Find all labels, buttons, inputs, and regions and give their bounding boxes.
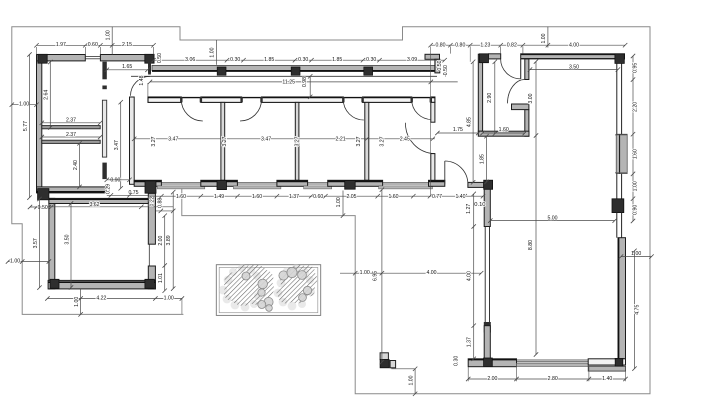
door arc room4	[412, 100, 432, 120]
extension line 1.00 top-left	[111, 27, 113, 55]
left wall solid upper	[484, 189, 490, 226]
dim 0.50 lower-left offset	[30, 206, 49, 208]
dim 2.90 vestibule	[494, 62, 496, 134]
dim 1.75 hall	[437, 132, 478, 134]
svg-text:5.77: 5.77	[23, 121, 29, 131]
svg-text:5.00: 5.00	[547, 216, 557, 222]
portico thin wall band	[152, 65, 440, 70]
svg-text:3.27: 3.27	[379, 136, 385, 146]
top wall right segment of top-left block	[100, 55, 153, 61]
svg-text:0.60: 0.60	[88, 42, 98, 48]
svg-text:1.40: 1.40	[455, 194, 465, 200]
left wall small dark block	[484, 322, 491, 333]
svg-text:1.37: 1.37	[289, 194, 299, 200]
svg-text:2.90: 2.90	[487, 93, 493, 103]
extension 1.00 top-right	[547, 27, 549, 48]
svg-text:0.77: 0.77	[432, 194, 442, 200]
bottom window 2.80	[517, 359, 589, 361]
door jamb caps on top wall	[180, 97, 182, 102]
door leaf and arc at wing top-left corridor	[131, 76, 150, 95]
courtyard bottom 1.00 dim	[391, 368, 415, 370]
right wall solid lower	[618, 238, 626, 359]
top wall piece right of portico	[425, 54, 440, 59]
svg-text:2.00: 2.00	[487, 376, 497, 382]
svg-text:4.22: 4.22	[96, 295, 106, 301]
svg-text:0.95: 0.95	[633, 63, 639, 73]
wing right end wall upper	[431, 102, 435, 122]
svg-text:4.00: 4.00	[569, 42, 579, 48]
svg-text:0.60: 0.60	[313, 194, 323, 200]
svg-text:3.62: 3.62	[89, 202, 99, 208]
wing bottom pier 1	[134, 180, 161, 186]
vestibule top-left column	[479, 54, 488, 63]
wing top wall segment 4	[363, 97, 412, 102]
window 1.60 second	[237, 181, 277, 183]
courtyard corner column light right	[390, 361, 396, 368]
svg-text:1.37: 1.37	[467, 337, 473, 347]
svg-text:2.45: 2.45	[400, 137, 410, 143]
bottom wall left segment	[468, 359, 516, 367]
svg-text:3.00: 3.00	[528, 93, 534, 103]
tree hatch blob right	[277, 265, 318, 304]
big room left column (junction)	[484, 180, 493, 189]
svg-text:0.88: 0.88	[158, 198, 164, 208]
wing right end wall lower	[431, 154, 435, 183]
svg-text:1.60: 1.60	[499, 127, 509, 133]
dim 3.47 corridor vertical	[120, 102, 122, 188]
portico lower face line	[131, 75, 437, 77]
window 1.60	[161, 181, 200, 183]
svg-text:4.00: 4.00	[467, 271, 473, 281]
dim row top-left 1.97 0.60 2.15	[37, 44, 154, 46]
interior wall A (2.37 room divider)	[42, 126, 100, 129]
corridor wall segment 2	[102, 86, 106, 90]
column at bottom wall left	[484, 358, 493, 367]
svg-text:1.00: 1.00	[633, 181, 639, 191]
bottom wall right segment hollow	[588, 359, 625, 365]
right side dim 4.75	[634, 251, 636, 369]
svg-text:3.50: 3.50	[569, 65, 579, 71]
svg-text:1.00: 1.00	[336, 197, 342, 207]
door arc room3	[343, 100, 364, 121]
dim row portico 3.06 0.30 1.85 0.30 1.85 0.30 3.09	[154, 59, 445, 61]
right wall thin middle	[616, 174, 618, 199]
svg-text:3.27: 3.27	[151, 136, 157, 146]
svg-text:0.22: 0.22	[149, 196, 155, 206]
dim 3.00 / 8.80 vertical in big room	[535, 62, 537, 355]
vestibule inner door arc	[508, 80, 525, 104]
column bottom-right of lower block	[145, 279, 155, 288]
big room top wall	[521, 54, 625, 59]
svg-text:2.37: 2.37	[66, 132, 76, 138]
svg-text:0.30: 0.30	[366, 57, 376, 63]
dim 3.62 lower block	[48, 206, 173, 208]
left wall solid lower	[484, 326, 490, 359]
window 0.60 in top wall	[85, 56, 100, 58]
wing bottom pier 5	[429, 180, 445, 186]
svg-text:2.37: 2.37	[66, 118, 76, 124]
svg-text:3.57: 3.57	[33, 238, 39, 248]
landscape box outer border	[216, 265, 320, 316]
svg-text:0.90: 0.90	[633, 205, 639, 215]
svg-text:1.00: 1.00	[164, 295, 174, 301]
svg-text:3.09: 3.09	[407, 57, 417, 63]
vestibule left wall	[478, 54, 482, 131]
dim 1.00 courtyard top	[342, 191, 344, 216]
bottom-right corner column redraw on top	[615, 358, 623, 366]
interior wall 2 of wing	[295, 102, 299, 180]
svg-text:0.10: 0.10	[474, 202, 485, 208]
svg-text:6.95: 6.95	[373, 271, 379, 281]
svg-text:0.29: 0.29	[106, 184, 112, 194]
svg-text:2.05: 2.05	[346, 194, 356, 200]
svg-text:3.47: 3.47	[168, 137, 178, 143]
tree circles right cluster	[279, 271, 288, 280]
column top-right of block	[145, 54, 154, 63]
wing top wall segment 3	[262, 97, 344, 102]
dim 3.50 inside big room	[530, 69, 618, 71]
svg-text:-0.50: -0.50	[443, 65, 449, 77]
svg-text:1.27: 1.27	[466, 204, 472, 214]
svg-text:1.40: 1.40	[602, 376, 612, 382]
bottom wall inner dark line	[48, 281, 155, 283]
entry door leaf	[520, 59, 522, 79]
courtyard dim 6.95 vertical	[381, 190, 383, 362]
corridor wall segment 3 (hollow)	[102, 100, 106, 157]
svg-text:1.60: 1.60	[388, 194, 398, 200]
bottom-right corner column	[615, 358, 623, 366]
dims 2.00 and 1.01	[164, 216, 166, 291]
svg-text:0.90: 0.90	[110, 178, 120, 184]
svg-text:1.00: 1.00	[10, 258, 20, 264]
svg-text:4.85: 4.85	[466, 117, 472, 127]
right side dim column 0.95 2.20 1.60 1.00 0.90	[632, 56, 634, 221]
svg-text:3.27: 3.27	[294, 136, 300, 146]
courtyard corner column light upper	[380, 353, 388, 360]
lower-left block left wall	[49, 198, 55, 289]
right wall middle column	[612, 199, 624, 213]
portico pier 1 (0.30)	[217, 67, 226, 75]
top wall piece to door	[489, 54, 501, 59]
landscape box inner border	[219, 267, 318, 312]
svg-text:1.00: 1.00	[408, 375, 414, 385]
tree circles trio bottom middle	[264, 297, 273, 306]
svg-text:1.97: 1.97	[56, 42, 66, 48]
column wing bottom-left junction	[145, 181, 156, 193]
dim 2.37 lower	[42, 136, 100, 138]
rotated 4.00 1.27 1.37 dims right of courtyard	[473, 194, 475, 359]
lower-left block right wall upper segment	[148, 193, 155, 244]
svg-text:4.75: 4.75	[634, 305, 640, 315]
svg-text:3.27: 3.27	[356, 136, 362, 146]
dim row 4.22 1.00	[47, 298, 182, 300]
svg-text:3.50: 3.50	[64, 234, 70, 244]
dim 1.60 vestibule	[483, 132, 525, 134]
dim 11.25 under portico	[150, 81, 458, 83]
left dim 5.77	[29, 55, 31, 198]
left wall window (4.00 opening)	[484, 227, 486, 326]
hall bottom wall piece	[468, 182, 484, 187]
dim 2.64 inside room	[49, 62, 51, 128]
svg-text:1.85: 1.85	[480, 154, 486, 164]
portico pier 3 (0.30)	[364, 67, 373, 75]
dim 2.37 upper	[42, 122, 100, 124]
svg-text:2.80: 2.80	[548, 376, 558, 382]
wing top wall segment 5	[431, 97, 435, 102]
svg-text:1.00: 1.00	[360, 270, 370, 276]
svg-text:1.00: 1.00	[74, 297, 80, 307]
svg-text:1.75: 1.75	[453, 127, 463, 133]
svg-text:0.50: 0.50	[157, 53, 163, 63]
right wall thin below column	[616, 213, 618, 238]
right side dim 1.00 horizontal	[621, 256, 652, 258]
wing top wall outer dark line	[148, 97, 435, 99]
svg-text:1.23: 1.23	[480, 42, 490, 48]
vestibule bottom wall	[478, 131, 529, 136]
extension lines top-left block	[36, 47, 38, 55]
bottom-right dim row 2.00 2.80 1.40	[468, 378, 625, 380]
big room top-right column	[615, 54, 624, 64]
wing bottom pier 4 (2.05)	[328, 180, 383, 186]
door arc room2	[240, 100, 262, 122]
svg-text:1.60: 1.60	[252, 194, 262, 200]
svg-text:1.00: 1.00	[210, 47, 216, 57]
svg-text:3.47: 3.47	[261, 137, 271, 143]
svg-text:1.00: 1.00	[631, 251, 641, 257]
step connector right end of portico	[435, 59, 440, 73]
svg-text:2.00: 2.00	[158, 235, 164, 245]
boundary stub at courtyard left	[181, 299, 183, 315]
dim 5.00 inside big room	[490, 220, 614, 222]
svg-text:1.00: 1.00	[105, 30, 111, 40]
svg-text:1.60: 1.60	[633, 149, 639, 159]
vestibule interior stub wall	[512, 104, 529, 110]
door leaf line in right wall opening	[148, 244, 150, 266]
corridor wall segment 4	[102, 163, 106, 180]
dim 1.65 corridor	[107, 69, 148, 71]
svg-text:1.48: 1.48	[139, 75, 145, 85]
column at pier 4	[345, 181, 356, 190]
wing interior dim row 3.47 3.47 2.21 2.45	[134, 138, 435, 140]
svg-text:8.80: 8.80	[528, 240, 534, 250]
svg-text:0.82: 0.82	[507, 42, 517, 48]
svg-text:1.00: 1.00	[19, 102, 29, 108]
svg-text:2.15: 2.15	[122, 42, 132, 48]
lower-left block top wall	[49, 198, 155, 203]
dim 3.50 lower block	[70, 204, 72, 288]
wing bottom pier 2	[201, 180, 238, 186]
door arc room1	[181, 100, 203, 122]
column bottom-left of block (junction)	[38, 189, 49, 200]
lower-left block right wall lower segment	[148, 266, 155, 289]
svg-text:0.80: 0.80	[455, 42, 465, 48]
svg-text:1.85: 1.85	[264, 57, 274, 63]
svg-text:0.30: 0.30	[454, 356, 460, 366]
interior wall 3 of wing	[365, 102, 369, 180]
wing top wall segment 1	[148, 97, 181, 102]
svg-text:3.47: 3.47	[114, 140, 120, 150]
wall stub below top-right column	[148, 62, 151, 75]
bottom wall of top-left block	[37, 187, 107, 193]
interior wall 1 of wing	[221, 102, 225, 180]
dim 0.98 at middle pier	[309, 76, 311, 97]
corridor wall segment 1	[102, 62, 106, 80]
top wall left segment of top-left block	[37, 55, 86, 61]
column bottom-left of lower block	[50, 279, 59, 288]
svg-text:0.98: 0.98	[302, 77, 308, 87]
tree scallop edge left	[224, 276, 233, 285]
svg-text:2.40: 2.40	[73, 160, 79, 170]
dim 4.85 vertical at wing end	[472, 62, 474, 183]
svg-text:3.27: 3.27	[222, 136, 228, 146]
vestibule right wall lower	[525, 110, 529, 137]
portico pier 2 (0.30)	[291, 67, 300, 75]
window 1.60 third	[383, 181, 429, 183]
svg-text:3.06: 3.06	[185, 57, 195, 63]
portico inner edge thick line	[152, 70, 440, 72]
right wall thin upper (lines)	[616, 63, 618, 134]
courtyard corner column dark	[380, 360, 389, 368]
svg-text:1.49: 1.49	[214, 194, 224, 200]
wing left wall	[130, 97, 135, 184]
wing top wall segment 2	[201, 97, 242, 102]
door arc in end wall	[405, 123, 434, 154]
svg-text:0.30: 0.30	[298, 57, 308, 63]
vestibule right wall upper	[525, 59, 529, 80]
tree circles left cluster	[258, 279, 268, 289]
dim 3.57	[39, 199, 41, 288]
svg-text:2.64: 2.64	[44, 90, 50, 100]
courtyard door leaf	[444, 161, 446, 184]
svg-text:2.20: 2.20	[633, 102, 639, 112]
wing bottom pier 3	[277, 180, 308, 186]
wing bottom dim row	[148, 195, 483, 197]
dim 1.85 below vestibule	[486, 136, 488, 182]
left wall of top-left block	[37, 55, 42, 189]
dim row top-right 0.80 0.80 1.23 0.82 4.00	[431, 44, 625, 46]
svg-text:1.65: 1.65	[122, 64, 132, 70]
svg-text:2.21: 2.21	[336, 137, 346, 143]
svg-text:1.85: 1.85	[332, 57, 342, 63]
courtyard door arc	[445, 161, 468, 184]
lower-left block bottom wall	[48, 280, 155, 289]
svg-text:1.60: 1.60	[176, 194, 186, 200]
svg-text:1.00: 1.00	[541, 33, 547, 43]
svg-text:11.25: 11.25	[282, 80, 295, 86]
left dim 1.00 mid	[8, 261, 49, 263]
left dim 1.00 top	[12, 104, 37, 106]
dim 1.00 rotated below 4.22	[80, 289, 82, 315]
svg-text:4.00: 4.00	[426, 270, 436, 276]
tree scallop edge right	[277, 279, 286, 288]
svg-text:0.30: 0.30	[230, 57, 240, 63]
svg-text:1.01: 1.01	[158, 273, 164, 283]
window 0.60	[308, 181, 328, 183]
dim 3.89	[172, 192, 174, 289]
svg-text:0.80: 0.80	[435, 42, 445, 48]
right wall window 1.60	[616, 134, 627, 173]
bottom wall left inner line	[468, 359, 516, 361]
bottom wall right sill band	[588, 366, 625, 371]
extension 1.00 at portico	[215, 40, 217, 65]
tree hatch blob left	[224, 265, 274, 306]
entry door arc	[501, 59, 521, 79]
interior wall B (2.37 room divider)	[42, 140, 100, 143]
column at interior wall 1 base	[217, 180, 227, 189]
dim 2.40	[79, 143, 81, 187]
portico left step connector	[148, 62, 151, 74]
column top-left corner	[38, 54, 47, 63]
courtyard dims 1.00 and 4.00 horizontal	[340, 272, 481, 274]
svg-text:3.89: 3.89	[166, 235, 172, 245]
